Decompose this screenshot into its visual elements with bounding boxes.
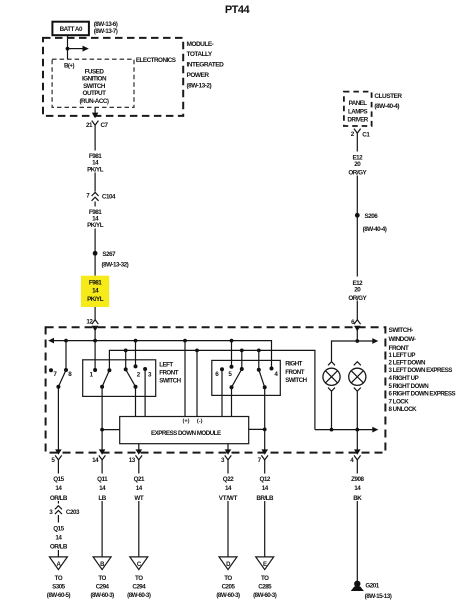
- wire lamp feed: [332, 338, 379, 362]
- wire pivot bus: [109, 350, 315, 429]
- svg-text:(+): (+): [183, 419, 190, 425]
- label F981 14 PK/YL highlighted: [81, 276, 109, 307]
- wire Z908: [356, 471, 358, 582]
- connector C7 pin 21: [86, 121, 109, 130]
- wire minus feed: [196, 350, 198, 416]
- svg-text:TO: TO: [261, 575, 269, 582]
- module express down: [120, 417, 249, 444]
- svg-text:(8W-60-3): (8W-60-3): [127, 592, 151, 599]
- svg-text:5 RIGHT DOWN: 5 RIGHT DOWN: [389, 383, 430, 390]
- svg-text:2 LEFT DOWN: 2 LEFT DOWN: [389, 359, 426, 366]
- node pin 5 exit: [51, 449, 61, 470]
- switch right up arm: [257, 350, 267, 389]
- svg-text:OR/GY: OR/GY: [348, 169, 367, 176]
- label E12 20 OR/GY: [345, 277, 370, 303]
- svg-text:Q12: Q12: [259, 476, 270, 483]
- svg-text:BATT A0: BATT A0: [60, 26, 83, 33]
- node pin 12 entry: [86, 319, 98, 341]
- svg-text:4 RIGHT UP: 4 RIGHT UP: [389, 375, 419, 382]
- svg-text:(8W-60-3): (8W-60-3): [253, 592, 277, 599]
- svg-text:(RUN-ACC): (RUN-ACC): [79, 98, 108, 105]
- off-page connector A: [49, 557, 67, 570]
- svg-text:(8W-15-13): (8W-15-13): [365, 593, 392, 600]
- label TO C285: [253, 575, 277, 599]
- label RIGHT FRONT SWITCH: [285, 361, 307, 384]
- label MODULE-TOTALLY INTEGRATED POWER: [187, 41, 225, 90]
- switch-window-front box: [46, 327, 386, 452]
- svg-text:C104: C104: [102, 193, 116, 200]
- svg-text:14: 14: [99, 485, 106, 492]
- wire lamp right down to pin 4: [356, 391, 358, 450]
- svg-text:C1: C1: [362, 131, 370, 138]
- svg-text:G201: G201: [365, 582, 379, 589]
- svg-text:SWITCH: SWITCH: [83, 83, 106, 90]
- svg-text:14: 14: [136, 485, 143, 492]
- svg-text:POWER: POWER: [187, 72, 210, 79]
- svg-text:TO: TO: [224, 575, 232, 582]
- svg-text:(8W-40-4): (8W-40-4): [374, 103, 399, 110]
- switch right down arm: [230, 350, 244, 389]
- wire module left link: [100, 428, 120, 432]
- svg-text:BK: BK: [353, 495, 362, 502]
- wire power bus: [48, 338, 271, 369]
- fused ignition switch output box: [52, 59, 134, 107]
- wire contact 6 to module: [221, 369, 223, 416]
- svg-text:DRIVER: DRIVER: [347, 117, 368, 124]
- node contact 1: [89, 341, 97, 379]
- wire to switch pin 12: [94, 307, 96, 320]
- off-page connector C: [130, 557, 148, 570]
- svg-text:OR/LB: OR/LB: [50, 544, 68, 551]
- node pin 3 exit: [221, 449, 231, 470]
- switch lock 7/8: [49, 341, 72, 389]
- svg-text:Q15: Q15: [53, 526, 64, 533]
- svg-text:C285: C285: [258, 583, 272, 590]
- svg-text:FRONT: FRONT: [285, 369, 305, 376]
- svg-text:(-): (-): [197, 419, 203, 425]
- svg-text:(8W-40-4): (8W-40-4): [363, 226, 387, 233]
- svg-text:C205: C205: [222, 583, 236, 590]
- off-page connector B: [93, 557, 111, 570]
- svg-text:TOTALLY: TOTALLY: [187, 51, 213, 58]
- svg-text:14: 14: [92, 457, 99, 464]
- node contact 3: [143, 367, 152, 378]
- svg-text:Q11: Q11: [97, 476, 108, 483]
- svg-text:B(+): B(+): [64, 62, 74, 69]
- label Q11 14 LB: [90, 474, 115, 503]
- svg-text:8 UNLOCK: 8 UNLOCK: [389, 406, 418, 413]
- svg-text:TO: TO: [135, 575, 143, 582]
- ground G201: [351, 581, 392, 600]
- svg-text:LB: LB: [98, 495, 106, 502]
- svg-text:14: 14: [55, 534, 62, 541]
- off-page connector E: [256, 557, 274, 570]
- svg-text:7 LOCK: 7 LOCK: [389, 399, 410, 406]
- node contact 2: [134, 341, 141, 379]
- svg-text:PK/YL: PK/YL: [87, 296, 104, 303]
- svg-text:C294: C294: [96, 583, 110, 590]
- left front switch box: [83, 360, 156, 397]
- svg-text:E: E: [263, 562, 267, 568]
- svg-text:12: 12: [86, 319, 93, 326]
- label LEFT FRONT SWITCH: [159, 362, 181, 385]
- node contact 4: [270, 367, 279, 378]
- node contact 6: [215, 367, 224, 378]
- svg-text:S305: S305: [52, 583, 66, 590]
- svg-text:TO: TO: [55, 575, 63, 582]
- svg-text:ELECTRONICS: ELECTRONICS: [136, 57, 176, 64]
- wire E12 segment 2: [356, 218, 358, 320]
- svg-text:Z908: Z908: [351, 476, 364, 483]
- connector C104 pin 7: [86, 192, 116, 200]
- svg-text:Q15: Q15: [53, 476, 64, 483]
- svg-text:C7: C7: [101, 122, 109, 129]
- label TO C205: [216, 575, 240, 599]
- wire module right link: [249, 428, 267, 432]
- svg-text:Q22: Q22: [223, 476, 234, 483]
- wire arm B to module: [135, 387, 137, 417]
- connector C1 pin 2: [351, 129, 371, 139]
- svg-text:OUTPUT: OUTPUT: [83, 90, 107, 97]
- svg-text:C294: C294: [132, 583, 146, 590]
- svg-text:S267: S267: [102, 251, 116, 258]
- node pin 4 exit: [350, 449, 360, 470]
- switch left down arm: [124, 350, 138, 388]
- cluster box PANEL LAMPS DRIVER: [344, 92, 372, 126]
- wire E12 segment 1: [356, 137, 358, 213]
- label TO C294: [127, 575, 151, 599]
- svg-text:14: 14: [262, 485, 269, 492]
- wire contact 3 to module: [144, 369, 146, 417]
- svg-text:14: 14: [55, 485, 62, 492]
- label Q15 14 OR/LB: [44, 523, 73, 551]
- wire Q15 upper: [57, 471, 59, 504]
- wire lamp return rail: [315, 427, 378, 433]
- label E12 20 OR/GY: [345, 152, 370, 177]
- svg-text:1 LEFT UP: 1 LEFT UP: [389, 352, 416, 359]
- label F981 14 PK/YL: [83, 151, 108, 174]
- svg-text:14: 14: [92, 288, 99, 295]
- wire Q22: [227, 471, 229, 558]
- label Q12 14 BR/LB: [250, 474, 279, 503]
- svg-text:(8W-60-5): (8W-60-5): [47, 592, 71, 599]
- svg-text:13: 13: [129, 457, 136, 464]
- svg-text:EXPRESS DOWN MODULE: EXPRESS DOWN MODULE: [151, 430, 221, 437]
- splice S267: [93, 251, 129, 268]
- svg-text:OR/LB: OR/LB: [50, 495, 68, 502]
- wire BATT A0 to module: [67, 35, 69, 59]
- svg-text:(8W-13-6): (8W-13-6): [94, 21, 118, 28]
- label Z908 14 BK: [345, 474, 370, 503]
- label TO C294: [90, 575, 114, 599]
- label Q15 14 OR/LB: [44, 474, 73, 503]
- wire lamp left down: [331, 391, 333, 429]
- svg-text:PT44: PT44: [225, 4, 251, 16]
- svg-text:OR/GY: OR/GY: [348, 295, 367, 302]
- wire to pin 5: [57, 387, 59, 451]
- wire module output pin 13: [138, 444, 140, 451]
- label Q21 14 WT: [126, 474, 151, 503]
- svg-text:21: 21: [86, 122, 93, 129]
- svg-text:FUSED: FUSED: [85, 69, 105, 76]
- node pin 7 exit: [258, 449, 268, 470]
- label (8W-13-6)/(8W-13-7): [94, 21, 118, 35]
- node contact 5: [228, 341, 233, 378]
- svg-text:WINDOW-: WINDOW-: [389, 336, 416, 343]
- svg-text:Q21: Q21: [134, 476, 145, 483]
- svg-text:RIGHT: RIGHT: [285, 361, 302, 368]
- module TIPM outer box: [43, 38, 183, 116]
- svg-text:S206: S206: [365, 213, 379, 220]
- svg-text:(8W-13-32): (8W-13-32): [102, 261, 129, 268]
- svg-text:SWITCH: SWITCH: [159, 378, 181, 385]
- svg-text:(8W-13-2): (8W-13-2): [187, 82, 212, 89]
- wire to pin 14: [101, 387, 103, 451]
- wire Q21: [138, 471, 140, 558]
- svg-text:PK/YL: PK/YL: [87, 222, 104, 229]
- wire module output pin 3: [227, 444, 229, 451]
- svg-text:20: 20: [354, 287, 361, 294]
- svg-text:(8W-13-7): (8W-13-7): [94, 28, 118, 35]
- svg-text:F981: F981: [89, 280, 102, 287]
- svg-text:3 LEFT DOWN EXPRESS: 3 LEFT DOWN EXPRESS: [389, 367, 453, 374]
- svg-text:C203: C203: [66, 509, 80, 516]
- lamp right: [349, 362, 366, 392]
- wire Q11: [101, 471, 103, 558]
- svg-text:6 RIGHT DOWN EXPRESS: 6 RIGHT DOWN EXPRESS: [389, 391, 456, 398]
- wire arm C to module: [231, 387, 233, 416]
- svg-text:MODULE-: MODULE-: [187, 41, 214, 48]
- label SWITCH-WINDOW-FRONT pin list: [389, 327, 456, 413]
- svg-text:LAMPS: LAMPS: [348, 108, 368, 115]
- svg-text:20: 20: [354, 161, 361, 168]
- node pin 13 exit: [129, 449, 142, 470]
- svg-text:IGNITION: IGNITION: [82, 76, 107, 83]
- label Q22 14 VT/WT: [214, 474, 243, 503]
- node junction on BATT wire: [66, 47, 70, 51]
- svg-text:(8W-60-3): (8W-60-3): [90, 592, 114, 599]
- wire to pin 7: [264, 387, 266, 450]
- wire plus feed: [184, 341, 186, 417]
- svg-text:INTEGRATED: INTEGRATED: [187, 62, 225, 69]
- switch left up arm: [100, 368, 111, 389]
- svg-text:SWITCH: SWITCH: [285, 377, 307, 384]
- node bus junctions: [64, 339, 233, 343]
- svg-text:PK/YL: PK/YL: [87, 166, 104, 173]
- svg-text:FRONT: FRONT: [159, 370, 179, 377]
- svg-text:SWITCH-: SWITCH-: [389, 327, 414, 334]
- svg-text:CLUSTER: CLUSTER: [374, 93, 402, 100]
- svg-text:TO: TO: [98, 575, 106, 582]
- right front switch box: [212, 360, 280, 395]
- off-page connector D: [219, 557, 237, 570]
- svg-text:14: 14: [225, 485, 232, 492]
- wire fused output exit: [92, 107, 99, 118]
- label F981 14 PK/YL: [83, 207, 108, 230]
- svg-text:LEFT: LEFT: [159, 362, 173, 369]
- svg-text:(8W-60-3): (8W-60-3): [216, 592, 240, 599]
- wire F981 segment 2: [94, 202, 96, 276]
- connector C203 pin 3: [49, 506, 80, 516]
- wire branch arrow right: [68, 46, 89, 52]
- fuse BATT A0: [52, 22, 89, 36]
- svg-text:14: 14: [354, 485, 361, 492]
- node pin 14 exit: [92, 449, 105, 470]
- svg-text:VT/WT: VT/WT: [219, 495, 238, 502]
- wire F981 segment 1: [94, 129, 96, 192]
- wire Q12: [264, 471, 266, 558]
- label TO S305: [47, 575, 71, 599]
- wire Q15 lower: [57, 515, 59, 557]
- svg-text:WT: WT: [134, 495, 143, 502]
- node pivot bus junctions: [124, 349, 261, 353]
- svg-text:BR/LB: BR/LB: [256, 495, 274, 502]
- node pin 6 entry: [351, 319, 360, 341]
- label CLUSTER (8W-40-4): [374, 93, 402, 110]
- lamp left: [323, 362, 340, 392]
- splice S206: [355, 213, 387, 233]
- svg-text:PANEL: PANEL: [349, 100, 368, 107]
